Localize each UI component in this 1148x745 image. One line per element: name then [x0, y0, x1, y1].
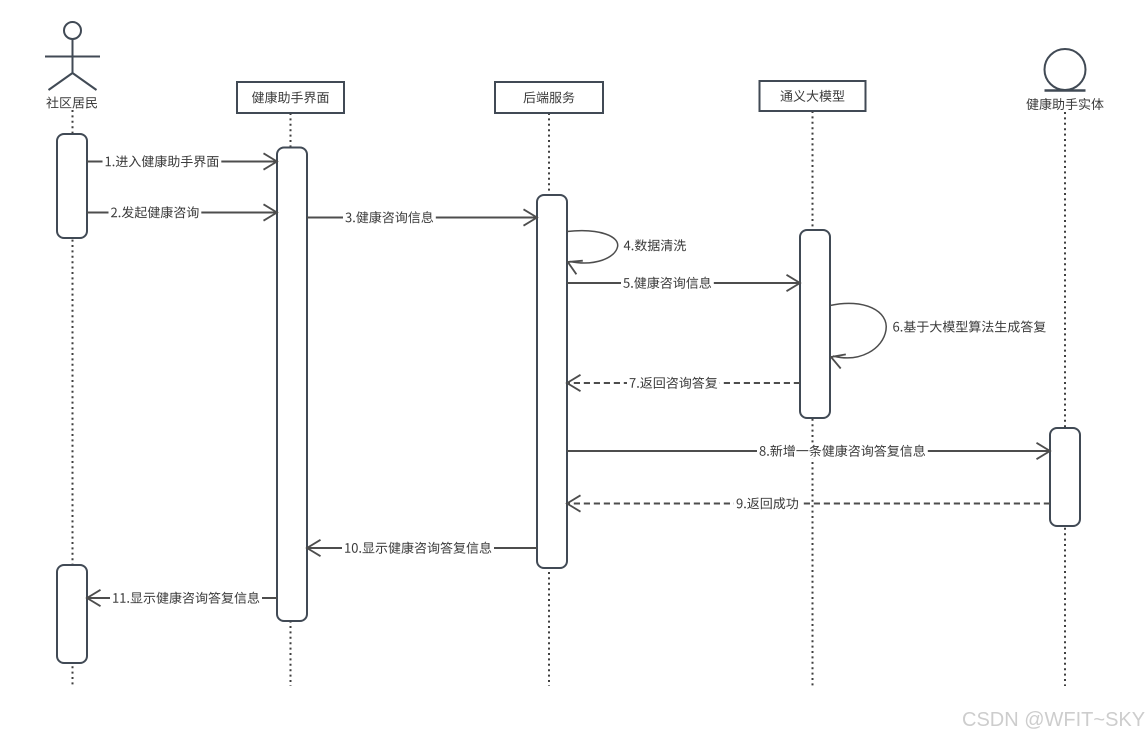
- label 社区居民: [46, 97, 97, 109]
- message 8.新增一条健康咨询答复信息: [567, 450, 1050, 452]
- header box 通义大模型: [760, 81, 866, 111]
- header box 后端服务: [495, 82, 603, 113]
- message 11.显示健康咨询答复信息: [87, 597, 277, 599]
- lifeline 社区居民: [72, 110, 74, 686]
- message 1.进入健康助手界面: [87, 161, 277, 163]
- activation bar 社区居民 #2: [57, 565, 87, 663]
- lifeline 健康助手实体: [1064, 112, 1066, 686]
- activation bar 健康助手实体: [1050, 428, 1080, 526]
- activation bar 社区居民 #1: [57, 134, 87, 238]
- activation bar 后端服务: [537, 195, 567, 568]
- message 10.显示健康咨询答复信息: [307, 547, 537, 549]
- lifeline 健康助手界面: [290, 113, 292, 686]
- svg-text:CSDN @WFIT~SKY: CSDN @WFIT~SKY: [962, 709, 1145, 731]
- message 7.返回咨询答复 (dashed return): [567, 382, 800, 384]
- entity symbol 健康助手实体: [1045, 49, 1086, 90]
- message 2.发起健康咨询: [87, 212, 277, 214]
- lifeline 后端服务: [548, 113, 550, 686]
- activation bar 通义大模型: [800, 230, 830, 418]
- message 9.返回成功 (dashed return): [567, 503, 1050, 505]
- message 5.健康咨询信息: [567, 282, 800, 284]
- self message 6.基于大模型算法生成答复: [830, 303, 886, 357]
- actor 社区居民: [45, 22, 100, 90]
- lifeline 通义大模型: [812, 111, 814, 686]
- self message 4.数据清洗: [567, 231, 618, 263]
- label 健康助手实体: [1026, 98, 1103, 110]
- header box 健康助手界面: [237, 82, 344, 113]
- message 3.健康咨询信息: [307, 217, 537, 219]
- activation bar 健康助手界面: [277, 148, 307, 622]
